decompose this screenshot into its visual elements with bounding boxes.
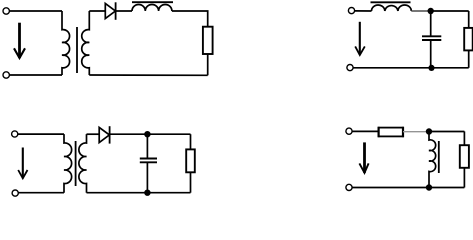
inductor L1 core bar <box>132 1 173 3</box>
wire terminal to resistor <box>352 130 379 132</box>
resistor R5 series <box>379 128 403 137</box>
junction node top <box>428 8 434 14</box>
junction node bottom <box>144 190 150 196</box>
wire secondary to diode <box>89 10 105 12</box>
wire top <box>18 133 64 135</box>
wire load bottom down <box>463 168 465 188</box>
current arrow I2 <box>355 22 365 55</box>
wire inductor to node (gray segment) <box>411 10 430 12</box>
inductor L2 winding <box>372 5 412 11</box>
diode D2 triangle <box>99 127 109 142</box>
diode D1 cathode bar <box>115 2 117 20</box>
resistor R2 load <box>464 28 473 51</box>
terminal T1 bottom <box>3 72 9 78</box>
wire top-left bottom <box>9 74 62 76</box>
wire bottom return <box>353 67 469 69</box>
wire diode to inductor <box>116 10 132 12</box>
transformer TR1 primary winding <box>62 11 70 75</box>
wire load bottom down <box>190 172 192 192</box>
junction node bottom <box>428 65 434 71</box>
capacitor C2 plates <box>140 158 157 160</box>
wire right branch down <box>468 11 470 28</box>
junction node top <box>144 131 150 137</box>
wire secondary to diode <box>87 133 100 135</box>
terminal T4 top <box>346 128 352 134</box>
diode D1 triangle <box>105 4 115 19</box>
wire diode to corner <box>110 133 191 135</box>
transformer TR1 core <box>76 27 78 73</box>
terminal T3 top <box>12 131 18 137</box>
wire bottom return <box>352 187 464 189</box>
terminal T2 top <box>348 8 354 14</box>
wire terminal to inductor <box>354 10 371 12</box>
wire bottom return <box>89 74 207 76</box>
wire node to right corner <box>431 10 469 12</box>
resistor R1 load <box>203 27 213 54</box>
terminal T1 top <box>3 8 9 14</box>
resistor R6 load <box>460 145 469 168</box>
terminal T2 bottom <box>347 65 353 71</box>
wire right branch down <box>463 131 465 145</box>
resistor R4 load <box>186 149 195 172</box>
transformer TR2 secondary winding <box>79 134 87 193</box>
wire bottom return <box>87 192 191 194</box>
wire node to right corner <box>429 131 464 133</box>
inductor L3 winding (shunt) <box>429 132 436 188</box>
transformer TR2 primary winding <box>64 134 72 193</box>
wire right branch down <box>190 134 192 149</box>
wire resistor to node (gray segment) <box>403 131 429 133</box>
junction node top <box>426 128 432 134</box>
inductor L2 core bar <box>371 1 411 3</box>
junction node bottom <box>426 184 432 190</box>
inductor L3 core bar <box>438 141 440 173</box>
inductor L1 winding <box>132 4 172 11</box>
capacitor C1 bottom lead <box>430 40 432 68</box>
current arrow I1 <box>14 23 25 58</box>
terminal T4 bottom <box>346 184 352 190</box>
capacitor C1 top lead <box>430 11 432 36</box>
transformer TR1 secondary winding <box>82 11 90 75</box>
capacitor C1 plates <box>422 35 441 37</box>
wire inductor to load corner <box>172 11 208 27</box>
current arrow I4 <box>359 142 368 172</box>
transformer TR2 core <box>75 141 77 186</box>
terminal T3 bottom <box>12 190 18 196</box>
wire load bottom down <box>468 50 470 67</box>
wire top-left top <box>9 10 62 12</box>
wire load bottom <box>207 54 209 76</box>
capacitor C2 bottom lead <box>146 162 148 192</box>
wire bottom <box>18 192 64 194</box>
diode D2 cathode bar <box>109 126 111 143</box>
capacitor C2 top lead <box>146 134 148 158</box>
current arrow I3 <box>18 148 27 179</box>
